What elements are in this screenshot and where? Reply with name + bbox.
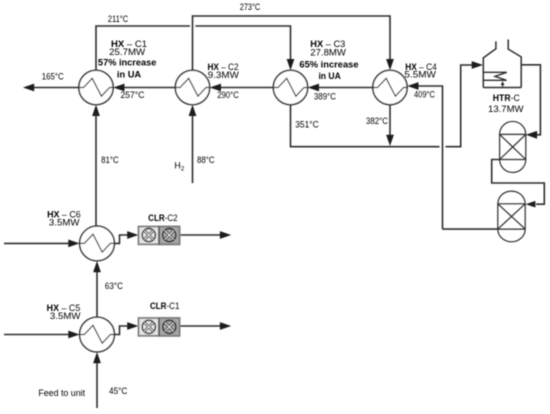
svg-text:Feed to unit: Feed to unit: [38, 388, 85, 398]
arrowhead: up into HX-C1 bottom: [92, 105, 100, 116]
svg-text:5.5MW: 5.5MW: [404, 70, 436, 80]
svg-text:81°C: 81°C: [101, 155, 119, 165]
svg-text:45°C: 45°C: [109, 386, 128, 396]
wire: 81C line HX-C6 top to HX-C1 bottom: [95, 116, 97, 226]
arrowhead: into HX-C5 left: [68, 331, 79, 339]
svg-text:in UA: in UA: [117, 69, 142, 79]
wire: HX-C6 outlet jog to CLR-C2: [114, 235, 128, 243]
wire: mix header gap-jump then to heater feed riser: [446, 65, 473, 147]
wire: 165C product outlet line from HX-C1 left: [33, 87, 79, 89]
heat exchanger HX-C3: [273, 70, 307, 104]
heat exchanger HX-C5: [80, 317, 115, 352]
arrowhead: down into HX-C4 top: [386, 59, 394, 70]
svg-text:25.7MW: 25.7MW: [109, 47, 146, 57]
wire: feed inlet to HX-C5 left: [4, 334, 69, 336]
wire: hot line HX-C2 to HX-C1 (257C): [124, 87, 175, 89]
arrowhead: into CLR-C2 left: [127, 231, 138, 239]
arrowhead: into reactor R2 right: [526, 201, 536, 208]
heat exchanger HX-C6: [80, 226, 115, 261]
wire: H2 feed 88C into HX-C2 bottom: [192, 116, 194, 183]
fired heater HTR-C (furnace body with stack): [483, 40, 521, 88]
arrowhead: up into HX-C5 bottom: [93, 352, 101, 363]
air cooler CLR-C2 (two fan cells): [139, 227, 180, 245]
arrowhead: down into HX-C3 top: [287, 59, 295, 70]
svg-text:13.7MW: 13.7MW: [488, 104, 524, 114]
wire: 351C line HX-C3 bottom down to mix header: [291, 105, 440, 147]
svg-text:290°C: 290°C: [217, 90, 239, 100]
burner arrow inside HTR-C: [502, 85, 504, 88]
svg-text:in UA: in UA: [318, 71, 341, 81]
svg-text:211°C: 211°C: [108, 14, 129, 24]
arrowhead: into HX-C3 right: [308, 84, 319, 92]
wire: feed to unit riser 45C into HX-C5 bottom: [96, 363, 98, 408]
wire: reactor R1 outlet to reactor R2 inlet: [492, 160, 545, 205]
svg-text:HTR-C: HTR-C: [493, 93, 521, 103]
svg-text:3.5MW: 3.5MW: [49, 217, 80, 227]
wire: reactor R2 outlet to 409C riser: [443, 228, 498, 230]
air cooler CLR-C1 (two fan cells): [139, 318, 180, 336]
svg-text:65% increase: 65% increase: [299, 59, 358, 69]
arrowhead: into reactor R1 right: [526, 131, 537, 139]
wire: CLR-C2 outlet to right: [180, 234, 221, 236]
arrowhead: CLR-C1 outlet arrow: [220, 322, 231, 330]
wire: 211C line HX-C1 top to HX-C3 top: [96, 26, 190, 70]
svg-text:165°C: 165°C: [42, 71, 65, 81]
reactor R1 (packed bed vessel): [500, 121, 526, 172]
svg-text:257°C: 257°C: [121, 90, 146, 100]
arrowhead: into HX-C2 right: [210, 84, 221, 92]
arrowhead: into CLR-C1 left: [127, 322, 138, 330]
svg-text:3.5MW: 3.5MW: [50, 311, 81, 321]
svg-text:27.8MW: 27.8MW: [310, 47, 346, 57]
arrowhead: down into mix header: [386, 135, 394, 146]
arrowhead: up into HX-C6 bottom: [93, 261, 101, 272]
arrowhead: up into HX-C2 bottom: [189, 105, 197, 116]
wire: 382C line HX-C4 bottom down into mix header: [389, 105, 391, 135]
reactor R2 (packed bed vessel): [498, 191, 525, 242]
svg-text:63°C: 63°C: [105, 281, 124, 291]
svg-text:88°C: 88°C: [197, 155, 215, 165]
svg-text:CLR-C1: CLR-C1: [150, 301, 180, 311]
arrowhead: into HX-C4 right: [407, 82, 418, 90]
wire: 273C line HX-C2 top to HX-C4 top: [193, 16, 391, 70]
wire: reactor effluent 409C into HX-C4 right: [418, 86, 443, 229]
arrowhead: outlet to left at 165C: [23, 84, 34, 92]
wire: feed inlet to HX-C6 left: [4, 242, 69, 244]
svg-text:382°C: 382°C: [366, 116, 389, 126]
wire: hot line HX-C4 to HX-C3 (389C): [319, 87, 373, 89]
svg-text:389°C: 389°C: [314, 91, 337, 101]
svg-text:CLR-C2: CLR-C2: [148, 213, 178, 223]
svg-text:273°C: 273°C: [240, 2, 261, 12]
heat exchanger HX-C4: [373, 70, 407, 104]
arrowhead: into HX-C6 left: [68, 240, 79, 248]
heat exchanger HX-C1: [79, 70, 113, 104]
wire: HX-C5 outlet jog to CLR-C1: [114, 326, 128, 335]
wire: heater outlet to reactor R1 inlet: [521, 65, 540, 135]
heat exchanger HX-C2: [175, 70, 209, 104]
wire: hot line HX-C3 to HX-C2 (290C): [221, 87, 274, 89]
arrowhead: CLR-C2 outlet arrow: [220, 231, 231, 239]
svg-text:9.3MW: 9.3MW: [208, 70, 240, 80]
svg-text:57% increase: 57% increase: [98, 58, 157, 68]
wire: CLR-C1 outlet to right: [180, 325, 221, 327]
arrowhead: into HX-C1 right: [113, 84, 124, 92]
arrowhead: into heater HTR-C left: [472, 61, 483, 69]
svg-text:409°C: 409°C: [414, 90, 436, 100]
svg-text:351°C: 351°C: [295, 119, 319, 129]
wire: 63C line HX-C5 top to HX-C6 bottom: [96, 272, 98, 317]
